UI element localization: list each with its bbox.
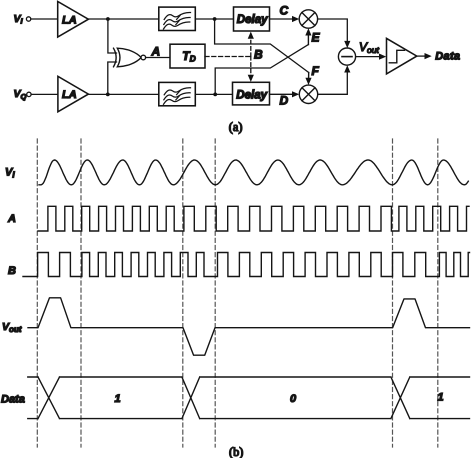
bandpass filter BPF2 (159, 82, 196, 105)
dashed control line B horizontal (205, 56, 251, 58)
dashed control line to Delay2 with arrow (248, 57, 254, 82)
delay element TD (170, 44, 205, 68)
delay block Delay1 (234, 7, 270, 31)
svg-text:A: A (7, 213, 16, 225)
svg-text:(b): (b) (229, 445, 243, 458)
svg-text:VI: VI (5, 167, 15, 180)
svg-text:1: 1 (115, 393, 121, 405)
arrow E into mixer M1 (305, 28, 311, 44)
mixer M1 (299, 10, 317, 28)
wire BPF1 to Delay1 (195, 18, 233, 20)
svg-text:B: B (254, 48, 263, 62)
svg-text:(a): (a) (229, 120, 243, 134)
bit boundary dashed line 5 (392, 139, 394, 447)
bandpass filter BPF1 (159, 7, 196, 30)
arrow F into mixer M2 (305, 73, 311, 86)
waveform B square wave (23, 253, 470, 277)
wire M1 to subtractor with arrow (318, 19, 351, 48)
svg-text:Vout: Vout (2, 321, 22, 334)
waveform V_out trace (28, 298, 470, 355)
svg-text:D: D (280, 94, 289, 108)
svg-text:F: F (312, 64, 320, 78)
wire V_I to LA1 (31, 18, 58, 20)
svg-text:A: A (151, 45, 161, 59)
cross wire from node D to E (215, 45, 308, 95)
node junction D tap (213, 93, 217, 97)
svg-text:1: 1 (438, 392, 444, 404)
wire Delay2 to mixer M2 with arrow (270, 91, 300, 97)
svg-text:0: 0 (290, 393, 297, 405)
svg-text:E: E (312, 31, 321, 45)
XNOR gate U1 (114, 48, 146, 67)
svg-text:B: B (8, 265, 16, 277)
bit boundary dashed line 2 (80, 139, 82, 447)
wire subtractor to comparator with arrow (356, 54, 387, 60)
mixer M2 (299, 85, 317, 103)
node junction on V_Q line (106, 93, 110, 97)
svg-text:Delay: Delay (237, 14, 268, 26)
wire V_Q to LA2 (31, 93, 58, 95)
delay block Delay2 (233, 82, 270, 105)
svg-text:LA: LA (62, 14, 77, 26)
wire comparator to Data with arrow (417, 53, 432, 59)
input terminal V_I (14, 13, 31, 26)
input terminal V_Q (14, 88, 32, 101)
wire LA1 to BPF1 (88, 18, 158, 20)
svg-text:Vout: Vout (359, 40, 379, 55)
bit boundary dashed line 4 (214, 139, 216, 447)
cross wire from node C to F (215, 19, 309, 73)
waveform Data eye trace (28, 377, 470, 419)
node junction C tap (213, 17, 217, 21)
comparator U3 (387, 38, 417, 74)
limiting amplifier LA1 (58, 2, 89, 38)
wire XNOR output to TD (146, 57, 170, 59)
subtractor U2 (338, 48, 355, 65)
svg-text:Data: Data (1, 393, 25, 405)
waveform V_I sine (39, 160, 468, 185)
wire LA2 to BPF2 (88, 93, 158, 95)
dashed control line to Delay1 with arrow (248, 32, 254, 57)
node junction on V_I line (106, 17, 110, 21)
wire M2 to subtractor with arrow (318, 65, 351, 94)
svg-text:Data: Data (435, 50, 460, 62)
limiting amplifier LA2 (58, 76, 89, 112)
bit boundary dashed line 3 (182, 139, 184, 447)
waveform A square wave (38, 206, 469, 231)
svg-text:LA: LA (62, 89, 77, 101)
svg-text:Delay: Delay (236, 89, 267, 101)
wire junction to XNOR input 1 (108, 19, 117, 53)
bit boundary dashed line 1 (36, 139, 38, 447)
svg-text:C: C (280, 4, 289, 18)
wire BPF2 to Delay2 (195, 93, 232, 95)
svg-text:VQ: VQ (14, 88, 27, 101)
wire Delay1 to mixer M1 with arrow (270, 16, 300, 22)
wire junction to XNOR input 2 (108, 62, 117, 94)
svg-text:VI: VI (14, 13, 24, 26)
bit boundary dashed line 6 (437, 139, 439, 447)
